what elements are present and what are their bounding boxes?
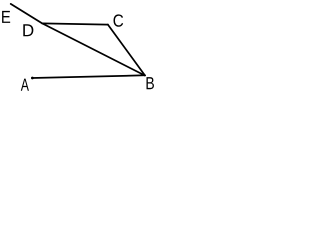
wire: segment D to C (42, 23, 108, 24)
node A label (21, 79, 29, 91)
node B label (146, 77, 153, 89)
node C label (114, 14, 124, 26)
node D label (23, 24, 33, 36)
wire: segment C to B (108, 25, 145, 76)
node E label (2, 11, 10, 23)
geometry figure: quadrilateral with ray B-D-E, segments DC, CB, AB (0, 0, 155, 98)
wire: segment A to B (32, 75, 145, 78)
wire: segment D to B (42, 23, 145, 75)
wire: ray D to E (11, 4, 43, 24)
node A endpoint dot (31, 77, 34, 80)
